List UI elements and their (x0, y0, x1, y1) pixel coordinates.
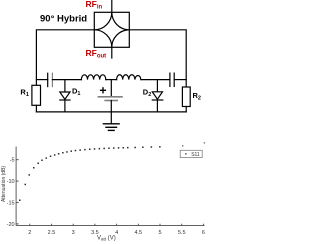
hybrid coupler U1 box (94, 12, 129, 47)
svg-text:S11: S11 (191, 152, 200, 158)
wire bus middle (106, 79, 117, 81)
svg-text:Vatt (V): Vatt (V) (97, 236, 116, 242)
ground (103, 112, 119, 130)
wire RF_in port (111, 0, 113, 12)
battery V1 (98, 80, 122, 112)
wire bottom bus (36, 111, 186, 113)
svg-text:D2: D2 (143, 87, 151, 98)
svg-text:-5: -5 (10, 158, 15, 164)
svg-text:Attenuation (dB): Attenuation (dB) (1, 166, 7, 202)
inductor L1 (81, 75, 105, 80)
svg-text:6: 6 (202, 230, 205, 236)
capacitor C2 (170, 73, 186, 86)
diode D1 (60, 80, 70, 112)
inductor L2 (117, 75, 141, 80)
svg-text:2: 2 (28, 230, 31, 236)
chart y-axis (16, 147, 19, 226)
chart data series S11 (19, 142, 205, 201)
svg-text:R2: R2 (193, 91, 201, 102)
chart x tick labels (28, 230, 205, 236)
svg-text:RFin: RFin (86, 0, 103, 11)
chart y tick labels (7, 158, 15, 228)
label plus battery (100, 87, 106, 93)
svg-text:2.5: 2.5 (48, 230, 56, 236)
svg-text:-10: -10 (7, 179, 15, 185)
svg-text:5.5: 5.5 (178, 230, 186, 236)
resistor R2 (182, 87, 190, 112)
svg-text:D1: D1 (72, 86, 80, 97)
svg-text:-20: -20 (7, 222, 15, 228)
hybrid coupler arcs (94, 12, 129, 47)
svg-text:RFout: RFout (86, 48, 107, 60)
wire top bus left (36, 79, 47, 81)
wire RF_out stub (111, 47, 113, 58)
resistor R1 (32, 85, 41, 112)
svg-text:3: 3 (72, 230, 75, 236)
svg-text:5: 5 (158, 230, 161, 236)
chart legend (180, 150, 202, 158)
wire hybrid left port to node A (36, 30, 94, 86)
wire hybrid right port to node B (129, 30, 186, 87)
diode D2 (152, 80, 163, 112)
svg-text:R1: R1 (20, 88, 28, 99)
chart x-axis (16, 224, 205, 226)
wire bus right (141, 79, 170, 81)
capacitor C1 (48, 73, 82, 86)
svg-text:90° Hybrid: 90° Hybrid (40, 14, 87, 25)
svg-text:-15: -15 (7, 201, 15, 207)
svg-text:4.5: 4.5 (134, 230, 142, 236)
